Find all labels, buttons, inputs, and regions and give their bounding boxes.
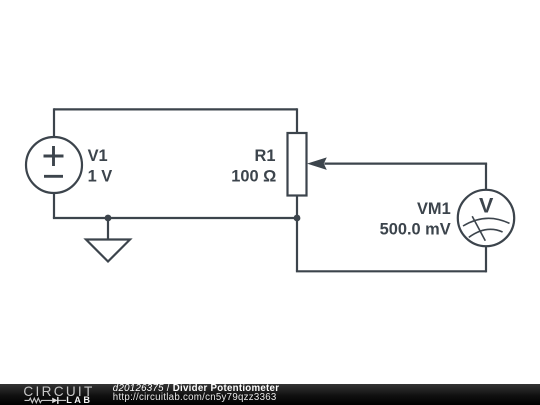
wire V1 bottom lead (53, 193, 55, 218)
svg-text:1 V: 1 V (88, 168, 113, 186)
CircuitLab logo (23, 385, 98, 405)
wire wiper to VM1 (324, 163, 487, 165)
wire bottom rail (53, 217, 297, 219)
wire VM1 bottom lead (485, 246, 487, 272)
wire V1 top lead (53, 108, 55, 137)
svg-text:V1: V1 (88, 147, 108, 165)
wire ground lead (107, 218, 109, 240)
wire top rail (54, 108, 297, 110)
footer text (113, 384, 279, 402)
wire R1 bottom lead (296, 196, 298, 219)
potentiometer R1 (288, 133, 327, 196)
svg-text:R1: R1 (255, 147, 276, 165)
node junction at ground (105, 215, 112, 222)
wire bottom loop (296, 270, 486, 272)
voltmeter VM1 (458, 190, 514, 246)
wire VM1 top lead (485, 164, 487, 191)
svg-text:500.0 mV: 500.0 mV (380, 221, 451, 239)
node junction at R1 bottom (294, 215, 301, 222)
svg-text:V: V (479, 194, 494, 218)
svg-text:100 Ω: 100 Ω (231, 168, 276, 186)
svg-text:VM1: VM1 (417, 200, 451, 218)
wire R1 top lead (296, 108, 298, 133)
voltage source V1 (26, 137, 82, 193)
wire R1 bottom to loop (296, 218, 298, 271)
ground (86, 240, 130, 262)
footer bar (0, 384, 540, 405)
